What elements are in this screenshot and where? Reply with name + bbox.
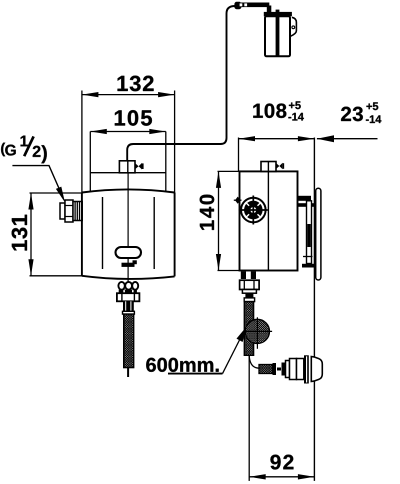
back plate right edge — [165, 132, 167, 192]
dim 140 bottom reference line — [218, 270, 240, 272]
outlet tabs side view — [241, 272, 256, 280]
power plug connector — [234, 2, 271, 14]
dim 108 text — [253, 103, 286, 118]
inlet valve knob side view — [276, 163, 283, 169]
dim 132 text — [118, 76, 154, 92]
dim 23 arrow and tail line — [317, 135, 378, 142]
wall line — [313, 138, 315, 481]
sensor eye side view — [239, 196, 268, 225]
stop valve wheel (hatched circle) — [244, 317, 273, 349]
back plate top line — [90, 172, 166, 174]
dim 108 tolerance — [288, 101, 303, 120]
body side division line — [267, 171, 269, 270]
wall plate — [316, 188, 321, 280]
dim 23 text — [341, 107, 363, 122]
dim 140 line — [216, 171, 221, 270]
body shading line right — [153, 197, 155, 269]
connector wire hose-to-outlet — [249, 356, 259, 369]
wall outlet connector bands — [273, 363, 286, 376]
dim 92 line — [249, 474, 314, 479]
dim 23 tolerance — [366, 102, 381, 123]
label 600mm. — [146, 358, 222, 374]
braided hose side view — [244, 302, 253, 356]
inlet fitting front view — [119, 161, 135, 173]
G 1/2 thread fitting — [60, 200, 82, 222]
dim 132 line — [82, 92, 175, 97]
label (G 1/2) — [1, 136, 47, 164]
leader 600mm — [223, 326, 248, 374]
dim 131 reference line bottom — [30, 275, 83, 277]
dim 131 reference line top — [30, 192, 83, 194]
leader G 1/2 — [12, 166, 65, 203]
dim 92 text — [270, 455, 293, 470]
battery box strap — [276, 10, 280, 57]
extension line left 132 / body left edge upper — [81, 91, 83, 193]
mounting bolt channel — [303, 201, 313, 264]
wall outlet flange — [304, 355, 309, 383]
extension line 92 left — [248, 356, 250, 481]
supply cable front view — [127, 6, 235, 161]
outlet coupling front view — [117, 282, 139, 314]
body shading line left — [102, 197, 104, 269]
braided hose front view — [124, 314, 134, 368]
battery box body — [265, 16, 290, 56]
battery box clip — [290, 17, 296, 36]
inlet valve knob front view — [135, 163, 143, 170]
dim 105 line — [90, 129, 166, 134]
bleed screw side view — [234, 197, 242, 204]
dim 131 line — [28, 193, 33, 276]
indicator dash below pill — [122, 260, 137, 267]
dim 140 text — [200, 195, 215, 230]
wall outlet braid segment — [259, 365, 273, 374]
mounting bracket top bar — [297, 196, 314, 207]
wall outlet stepped discs — [286, 359, 304, 380]
back plate left edge — [89, 132, 91, 192]
dim 131 text — [12, 215, 28, 251]
dim 105 text — [115, 110, 152, 126]
valve body side outline — [240, 171, 298, 270]
dim 108 line — [239, 136, 315, 141]
hose end stub front view — [127, 368, 129, 377]
centerline front view — [127, 161, 129, 375]
outlet coupling side view — [240, 280, 260, 301]
mounting bracket bottom bar — [302, 264, 316, 268]
inlet fitting side view — [261, 162, 276, 172]
extension line right 132 / body right edge upper — [174, 91, 176, 193]
wall outlet cap behind wall — [311, 357, 322, 382]
sensor window pill — [116, 247, 142, 258]
dim 140 top reference line — [218, 170, 240, 172]
extension line 108 left — [238, 138, 240, 172]
battery box cap — [264, 12, 292, 16]
valve body front outline — [82, 189, 175, 279]
